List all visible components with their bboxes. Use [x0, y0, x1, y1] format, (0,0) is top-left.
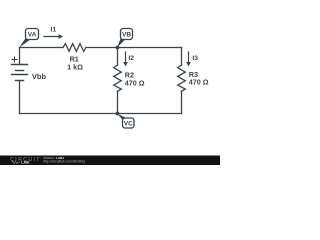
svg-text:I2: I2: [128, 55, 134, 62]
svg-text:LAB: LAB: [21, 161, 29, 165]
svg-text:http://circuitlab.com/c8v39zg: http://circuitlab.com/c8v39zg: [43, 160, 85, 164]
svg-text:I1: I1: [51, 27, 57, 34]
svg-text:1 kΩ: 1 kΩ: [67, 62, 83, 71]
svg-text:Vbb: Vbb: [32, 72, 47, 81]
svg-text:I3: I3: [192, 55, 198, 62]
svg-text:VA: VA: [28, 31, 37, 38]
svg-text:470 Ω: 470 Ω: [125, 78, 145, 87]
svg-text:470 Ω: 470 Ω: [189, 77, 209, 86]
svg-text:VB: VB: [122, 31, 131, 38]
svg-text:VC: VC: [124, 121, 133, 128]
